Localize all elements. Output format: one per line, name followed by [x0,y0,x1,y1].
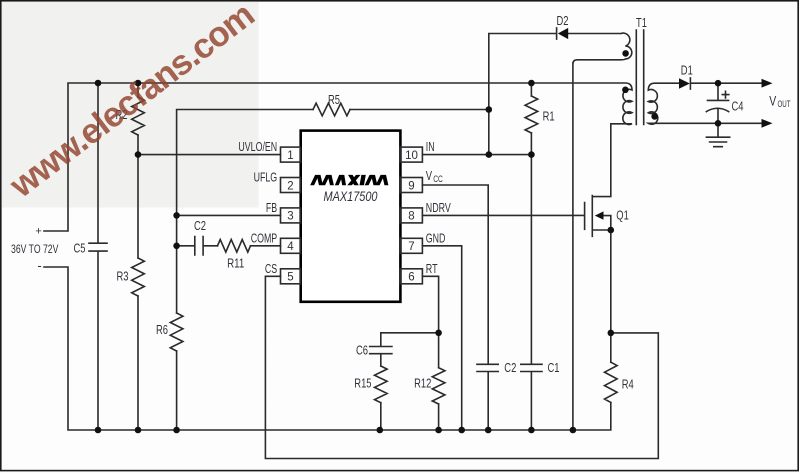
svg-text:COMP: COMP [251,230,278,245]
svg-text:3: 3 [287,211,293,223]
svg-text:UVLO/EN: UVLO/EN [238,139,277,154]
svg-text:OUT: OUT [778,99,791,110]
svg-text:CS: CS [265,261,278,276]
svg-text:FB: FB [266,200,277,215]
svg-text:CC: CC [433,174,443,184]
svg-text:C2: C2 [194,218,206,233]
svg-text:NDRV: NDRV [426,200,451,215]
svg-text:R5: R5 [328,92,340,107]
svg-text:R4: R4 [622,377,634,392]
svg-text:C1: C1 [548,360,560,375]
svg-text:2: 2 [287,180,293,192]
svg-text:R12: R12 [414,375,431,390]
svg-text:C2: C2 [504,360,516,375]
svg-text:R6: R6 [156,322,168,337]
svg-text:MAX17500: MAX17500 [324,188,378,204]
svg-text:V: V [426,169,433,183]
svg-text:Q1: Q1 [616,208,629,223]
svg-text:D1: D1 [681,62,693,77]
svg-text:R15: R15 [354,375,371,390]
svg-text:C4: C4 [732,99,744,114]
svg-text:R3: R3 [117,269,129,284]
svg-text:+: + [35,226,41,238]
svg-text:IN: IN [426,139,435,154]
svg-text:5: 5 [287,272,293,284]
svg-text:6: 6 [408,272,414,284]
svg-text:R11: R11 [227,255,244,270]
svg-text:D2: D2 [557,13,569,28]
svg-text:-: - [37,258,41,273]
svg-text:V: V [769,94,776,109]
svg-text:R1: R1 [543,109,555,124]
svg-text:4: 4 [287,241,294,253]
svg-text:8: 8 [408,211,414,223]
svg-text:UFLG: UFLG [254,170,278,185]
svg-text:1: 1 [287,150,293,162]
svg-text:9: 9 [408,180,414,192]
svg-text:RT: RT [426,261,438,276]
svg-text:36V TO 72V: 36V TO 72V [11,242,59,256]
svg-text:T1: T1 [636,15,647,30]
svg-text:7: 7 [408,241,414,253]
svg-text:GND: GND [426,230,446,245]
svg-text:C6: C6 [356,343,368,358]
svg-text:C5: C5 [74,241,86,256]
svg-text:10: 10 [405,150,418,162]
